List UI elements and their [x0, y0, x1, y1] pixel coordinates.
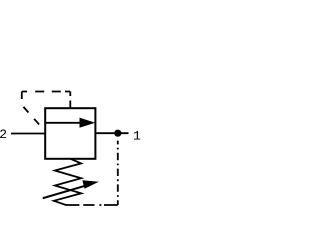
wire port 2 (inlet line)	[11, 133, 45, 135]
valve body U1 (envelope)	[45, 108, 95, 159]
adjustment arrow head	[82, 180, 99, 189]
spring (adjustable)	[54, 159, 81, 205]
flow path arrow (inside envelope)	[45, 118, 95, 128]
pilot line (dashed) top run: right corner to top-left corner	[22, 91, 71, 93]
node junction dot	[114, 130, 121, 137]
drain line bottom (dash-dot) to spring	[66, 204, 118, 206]
svg-text:2: 2	[0, 127, 7, 142]
pilot line (dashed) lower run: top-left corner down and diagonal to box	[22, 92, 45, 131]
pilot line (dashed) riser: box top up to corner	[69, 92, 71, 109]
drain line vertical (dash-dot) from node down	[117, 141, 119, 205]
adjustment arrow shaft	[44, 186, 86, 198]
svg-text:1: 1	[133, 129, 141, 144]
wire port 1 (outlet line)	[95, 132, 128, 134]
